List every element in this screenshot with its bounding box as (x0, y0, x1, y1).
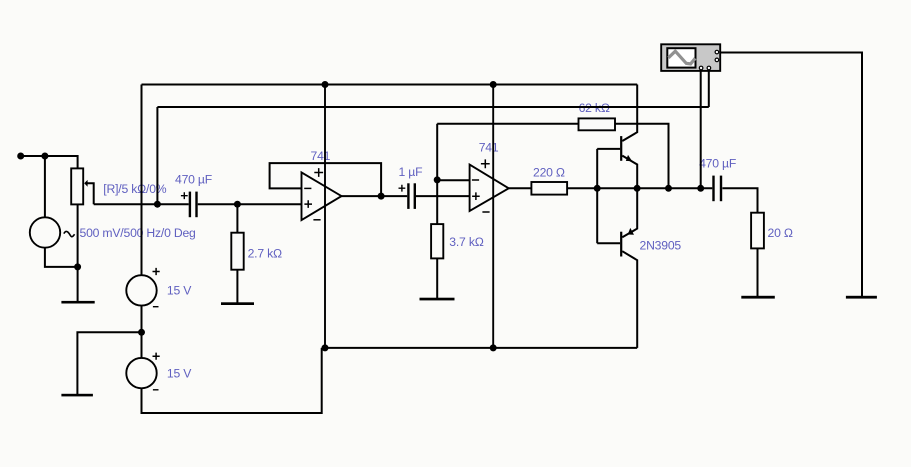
ground under R2 (420, 298, 455, 301)
wire node B to U2 inverting input (437, 179, 469, 181)
svg-text:15 V: 15 V (167, 284, 192, 298)
wire potentiometer bottom to ground (77, 204, 79, 301)
wire bottom V- rail (322, 347, 638, 349)
wire scope ground terminal to ground (721, 53, 862, 297)
wire node to resistor R1 2.7k (236, 204, 238, 233)
resistor R3 62k (579, 118, 616, 130)
wire R1 to ground (236, 270, 238, 303)
capacitor C2 1uF (399, 183, 417, 209)
capacitor C1 470uF (181, 192, 198, 218)
wire Q2 collector to V- rail (622, 251, 637, 348)
transistor Q1 NPN (620, 136, 632, 161)
potentiometer R [R]/5k (71, 168, 87, 204)
wire Q1 base (597, 148, 620, 150)
wire R2 3.7k to ground (436, 258, 438, 298)
node AC top junction (41, 153, 48, 160)
wire AC source bottom to junction (45, 248, 78, 267)
wire base drive vertical (596, 149, 598, 243)
wire signal node A to C1 (94, 203, 189, 205)
oscilloscope XSC1 (661, 44, 720, 71)
wire battery midpoint to ground (77, 332, 141, 394)
wire U2 output to R4 220 (509, 187, 532, 189)
svg-text:1 µF: 1 µF (399, 165, 423, 179)
svg-text:741: 741 (479, 141, 499, 155)
node input signal (154, 201, 161, 208)
svg-text:500 mV/500 Hz/0 Deg: 500 mV/500 Hz/0 Deg (80, 226, 196, 240)
wire R5 to ground (757, 248, 759, 296)
svg-text:2.7 kΩ: 2.7 kΩ (248, 247, 282, 261)
AC source V1 (30, 217, 75, 247)
wire scope channel A probe (700, 71, 702, 189)
battery V2 15V (126, 268, 159, 307)
op-amp U1 supply line (324, 85, 326, 348)
resistor R4 220 (531, 182, 567, 195)
node U1 V+ on rail (322, 81, 329, 88)
ground under R1 (221, 302, 254, 305)
transistor Q2 2N3905 PNP (620, 228, 634, 257)
svg-text:20 Ω: 20 Ω (768, 226, 793, 240)
wire Q2 base (597, 242, 620, 244)
wire scope channel B rail (157, 106, 708, 108)
svg-text:470 µF: 470 µF (175, 172, 212, 186)
op-amp U2 741 (470, 159, 509, 212)
svg-text:220 Ω: 220 Ω (533, 165, 565, 179)
node R1 top (234, 201, 241, 208)
node emitters (634, 185, 641, 192)
node U1 output (378, 193, 385, 200)
wire output node rail to C3 (567, 187, 712, 189)
resistor R2 3.7k (431, 224, 443, 258)
node U2 V+ on rail (490, 81, 497, 88)
node base drive (594, 185, 601, 192)
node open input (17, 153, 24, 160)
wire C3 to load R5 20 (722, 188, 757, 212)
wire channel B drop to input node (156, 107, 158, 204)
wire U1 output to C2 (342, 195, 408, 197)
wire between batteries (141, 306, 143, 358)
svg-text:2N3905: 2N3905 (640, 238, 682, 252)
op-amp U2 supply line (492, 85, 494, 348)
ground scope (846, 296, 877, 299)
wire Q1 collector to V+ rail (622, 85, 637, 142)
ground battery midpoint (61, 394, 93, 397)
wire feedback to resistor R3 62k (437, 123, 578, 125)
wire battery V3 bottom loop to V- rail (142, 348, 322, 413)
resistor R5 20 (751, 213, 764, 249)
wire potentiometer wiper (87, 183, 94, 204)
svg-text:741: 741 (311, 149, 331, 163)
node AC bottom junction (74, 263, 81, 270)
ground under R5 (741, 296, 775, 299)
node B U2 inverting (434, 176, 441, 183)
wire scope channel B stub (708, 71, 710, 107)
node feedback tap (665, 185, 672, 192)
node U1 V- on rail (322, 344, 329, 351)
wire input stub with open node (21, 156, 78, 168)
wire AC source top (44, 156, 46, 217)
op-amp U1 741 (302, 168, 342, 220)
battery V3 15V (126, 353, 159, 390)
wire C1 to op-amp U1 non-inverting input (198, 203, 302, 205)
wire Q2 emitter to output node (622, 188, 637, 237)
wire U1 feedback loop (270, 163, 382, 196)
node U2 V- on rail (490, 344, 497, 351)
capacitor C3 470uF (712, 176, 722, 202)
wire R3 to output node (615, 124, 669, 189)
wire V+ rail drop to battery V2 (141, 85, 143, 276)
wire top V+ rail (142, 84, 638, 86)
wire C2 to op-amp U2 non-inverting input (416, 195, 470, 197)
node battery midpoint (138, 329, 145, 336)
node scope A tap (697, 185, 704, 192)
wire node B vertical branch (436, 124, 438, 224)
resistor R1 2.7k (231, 233, 243, 270)
wire Q1 emitter to output node (622, 156, 637, 189)
svg-text:470 µF: 470 µF (699, 157, 736, 171)
ground under AC source (61, 301, 94, 304)
svg-text:15 V: 15 V (167, 367, 192, 381)
svg-text:3.7 kΩ: 3.7 kΩ (449, 235, 483, 249)
